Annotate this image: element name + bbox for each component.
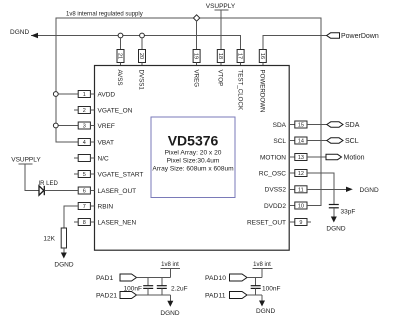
svg-text:1: 1 bbox=[83, 92, 86, 98]
pin box 17 TEST_CLOCK bbox=[237, 50, 245, 66]
power 1v8 int left group bbox=[161, 262, 181, 278]
svg-text:18: 18 bbox=[217, 53, 223, 59]
pin 6 LASER_OUT bbox=[78, 187, 136, 195]
wire 1v8 supply rail top bbox=[56, 18, 321, 206]
pin box 19 VREG bbox=[193, 50, 201, 66]
svg-text:12: 12 bbox=[298, 171, 304, 177]
op chip VD5376 body bbox=[95, 66, 290, 251]
node junction VREG on supply rail bbox=[193, 15, 199, 21]
wire VREF to rail bbox=[56, 125, 78, 127]
svg-text:DGND: DGND bbox=[10, 29, 29, 36]
svg-text:13: 13 bbox=[298, 155, 304, 161]
svg-text:2.2uF: 2.2uF bbox=[171, 286, 188, 293]
wire POWERDOWN stem bbox=[263, 36, 327, 50]
pin box 20 DVSS1 bbox=[138, 50, 146, 66]
ground DGND below 12K bbox=[54, 248, 73, 269]
svg-text:9: 9 bbox=[299, 220, 302, 226]
svg-text:10: 10 bbox=[298, 204, 304, 210]
svg-text:Motion: Motion bbox=[344, 155, 365, 162]
pin 2 VGATE_ON bbox=[74, 107, 133, 115]
wire RBIN to resistor bbox=[64, 206, 78, 228]
svg-text:6: 6 bbox=[83, 189, 86, 195]
svg-text:19: 19 bbox=[193, 53, 199, 59]
svg-text:1v8 int: 1v8 int bbox=[253, 262, 271, 268]
port flag PAD11 bbox=[205, 292, 262, 300]
svg-text:5: 5 bbox=[83, 172, 86, 178]
pin 4 VBAT bbox=[78, 139, 114, 147]
node junction AVSS bbox=[118, 33, 123, 38]
svg-text:PAD11: PAD11 bbox=[205, 293, 226, 300]
svg-text:DGND: DGND bbox=[326, 226, 345, 233]
svg-text:4: 4 bbox=[83, 140, 86, 146]
svg-text:VSUPPLY: VSUPPLY bbox=[206, 3, 236, 10]
capacitor 33pF bbox=[329, 205, 356, 216]
node junction DVSS1 bbox=[140, 33, 145, 38]
svg-text:VTOP: VTOP bbox=[217, 70, 224, 87]
svg-text:100nF: 100nF bbox=[124, 286, 142, 293]
svg-text:VBAT: VBAT bbox=[98, 139, 115, 146]
port flag SDA bbox=[327, 122, 360, 129]
svg-text:14: 14 bbox=[298, 139, 304, 145]
svg-text:SDA: SDA bbox=[345, 122, 360, 129]
wire DGND line bbox=[31, 36, 241, 50]
svg-text:VREF: VREF bbox=[98, 123, 115, 130]
svg-text:33pF: 33pF bbox=[341, 209, 356, 216]
svg-text:AVSS: AVSS bbox=[116, 70, 123, 86]
port flag PAD21 bbox=[96, 292, 170, 300]
capacitor 100nF right bbox=[251, 278, 281, 296]
port flag PowerDown bbox=[327, 33, 340, 38]
svg-text:DVSS2: DVSS2 bbox=[265, 187, 287, 194]
inner block VD5376 bbox=[151, 117, 235, 198]
svg-text:PowerDown: PowerDown bbox=[341, 33, 379, 40]
pin 12 RC_OSC bbox=[259, 170, 334, 205]
svg-text:VD5376: VD5376 bbox=[168, 133, 219, 149]
pin box 21 AVSS bbox=[117, 50, 125, 66]
svg-text:IR LED: IR LED bbox=[39, 181, 59, 187]
wire AVDD to rail bbox=[56, 93, 78, 95]
svg-text:DVDD2: DVDD2 bbox=[264, 203, 286, 210]
svg-text:100nF: 100nF bbox=[262, 286, 280, 293]
pin 14 SCL bbox=[273, 137, 326, 145]
port flag SCL bbox=[327, 138, 359, 145]
ground DGND right group bbox=[256, 295, 275, 315]
capacitor 100nF left bbox=[124, 278, 154, 296]
svg-text:POWERDOWN: POWERDOWN bbox=[259, 70, 266, 113]
svg-text:MOTION: MOTION bbox=[260, 154, 286, 161]
svg-text:TEST_CLOCK: TEST_CLOCK bbox=[236, 70, 243, 111]
svg-text:7: 7 bbox=[83, 204, 86, 210]
svg-text:20: 20 bbox=[138, 53, 144, 59]
port flag Motion bbox=[326, 154, 365, 161]
svg-text:SDA: SDA bbox=[273, 122, 287, 129]
pin 13 MOTION bbox=[260, 154, 326, 162]
pin 8 LASER_NEN bbox=[74, 219, 136, 227]
svg-text:DGND: DGND bbox=[160, 310, 179, 317]
pin box 16 POWERDOWN bbox=[259, 50, 267, 66]
pin 15 SDA bbox=[273, 121, 327, 129]
pin 5 VGATE_START bbox=[74, 171, 143, 179]
pin 11 DVSS2 bbox=[265, 186, 347, 194]
svg-text:VSUPPLY: VSUPPLY bbox=[11, 157, 41, 164]
svg-text:PAD1: PAD1 bbox=[96, 275, 113, 282]
svg-text:21: 21 bbox=[117, 53, 123, 59]
svg-text:12K: 12K bbox=[43, 236, 55, 243]
pin 10 DVDD2 bbox=[264, 202, 315, 210]
svg-text:SCL: SCL bbox=[345, 138, 359, 145]
wire AVSS stem bbox=[120, 38, 122, 50]
svg-text:DGND: DGND bbox=[360, 187, 379, 194]
wire DVSS1 stem bbox=[141, 38, 143, 50]
pin 1 AVDD bbox=[78, 91, 115, 99]
svg-text:15: 15 bbox=[298, 123, 304, 129]
svg-text:3: 3 bbox=[83, 124, 86, 130]
capacitor 2.2uF bbox=[157, 278, 188, 296]
pin N/C bbox=[74, 155, 109, 163]
svg-text:DGND: DGND bbox=[256, 308, 275, 315]
ground DGND right arrow bbox=[346, 187, 379, 194]
pin 9 RESET_OUT bbox=[247, 219, 311, 227]
pin box 18 VTOP bbox=[217, 50, 225, 66]
svg-text:LASER_OUT: LASER_OUT bbox=[98, 188, 137, 195]
svg-text:N/C: N/C bbox=[98, 155, 110, 162]
svg-text:VGATE_ON: VGATE_ON bbox=[98, 107, 133, 114]
pin 3 VREF bbox=[78, 122, 115, 130]
diode IR LED bbox=[39, 181, 79, 195]
svg-text:VREG: VREG bbox=[192, 70, 199, 88]
wire VREG stem bbox=[196, 21, 198, 49]
wire VSUPPLY to VTOP bbox=[220, 10, 222, 50]
resistor 12K bbox=[43, 228, 66, 248]
svg-text:DGND: DGND bbox=[54, 262, 73, 269]
power 1v8 int right group bbox=[253, 262, 273, 278]
wire left supply rail down bbox=[56, 36, 78, 143]
node junction AVDD bbox=[53, 92, 58, 97]
power VSUPPLY left bbox=[11, 157, 41, 191]
ground DGND left group bbox=[160, 295, 179, 317]
node junction VREF bbox=[53, 123, 58, 128]
svg-text:SCL: SCL bbox=[273, 138, 286, 145]
svg-text:2: 2 bbox=[83, 108, 86, 114]
svg-text:16: 16 bbox=[259, 53, 265, 59]
svg-text:PAD21: PAD21 bbox=[96, 293, 117, 300]
port flag PAD10 bbox=[205, 274, 262, 282]
svg-text:VGATE_START: VGATE_START bbox=[98, 171, 144, 178]
svg-text:17: 17 bbox=[237, 53, 243, 59]
ground DGND below 33pF bbox=[326, 208, 345, 233]
svg-text:RC_OSC: RC_OSC bbox=[259, 170, 286, 177]
port flag PAD1 bbox=[96, 274, 170, 282]
svg-text:Pixel Size:30.4um: Pixel Size:30.4um bbox=[167, 157, 220, 164]
svg-text:Array Size: 608um x 608um: Array Size: 608um x 608um bbox=[152, 166, 234, 173]
svg-text:AVDD: AVDD bbox=[98, 91, 116, 98]
svg-text:RESET_OUT: RESET_OUT bbox=[247, 219, 286, 226]
svg-text:11: 11 bbox=[298, 188, 304, 194]
svg-text:RBIN: RBIN bbox=[98, 203, 114, 210]
svg-text:8: 8 bbox=[83, 220, 86, 226]
svg-text:LASER_NEN: LASER_NEN bbox=[98, 219, 137, 226]
pin 7 RBIN bbox=[78, 203, 113, 211]
svg-text:Pixel Array: 20 x 20: Pixel Array: 20 x 20 bbox=[165, 149, 222, 156]
svg-text:PAD10: PAD10 bbox=[205, 275, 226, 282]
svg-text:1v8 internal regulated supply: 1v8 internal regulated supply bbox=[66, 12, 143, 18]
svg-text:1v8 int: 1v8 int bbox=[161, 262, 179, 268]
svg-text:DVSS1: DVSS1 bbox=[138, 70, 145, 91]
